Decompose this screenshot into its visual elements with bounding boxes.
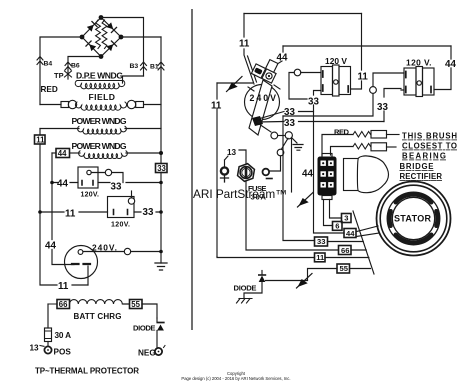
svg-text:120V.: 120V.: [81, 192, 100, 199]
svg-text:DIODE: DIODE: [133, 324, 156, 333]
svg-text:55: 55: [131, 300, 140, 309]
svg-text:44: 44: [277, 53, 288, 64]
svg-text:44: 44: [45, 241, 56, 252]
svg-text:BATT CHRG: BATT CHRG: [74, 312, 122, 321]
svg-text:33: 33: [284, 107, 295, 118]
svg-text:POWER WNDG: POWER WNDG: [72, 141, 127, 151]
svg-text:B6: B6: [71, 63, 80, 70]
svg-text:30 A: 30 A: [55, 331, 72, 340]
svg-text:120 V: 120 V: [325, 56, 347, 66]
svg-text:33: 33: [308, 97, 319, 108]
svg-text:Page design (c) 2004 - 2016 by: Page design (c) 2004 - 2016 by ARI Netwo…: [181, 376, 290, 381]
svg-text:44: 44: [346, 229, 355, 238]
svg-text:33: 33: [111, 182, 122, 193]
svg-text:STATOR: STATOR: [394, 214, 432, 224]
svg-text:33: 33: [317, 237, 325, 246]
svg-text:NEG: NEG: [138, 349, 156, 358]
svg-text:11: 11: [358, 72, 369, 83]
svg-text:BEARING: BEARING: [402, 152, 446, 161]
svg-text:13: 13: [30, 344, 40, 353]
svg-text:D.P.E WNDG: D.P.E WNDG: [76, 71, 123, 81]
svg-text:66: 66: [59, 300, 68, 309]
svg-text:44: 44: [445, 59, 456, 70]
svg-text:11: 11: [316, 253, 325, 262]
svg-text:THIS BRUSH: THIS BRUSH: [402, 132, 457, 141]
svg-text:B4: B4: [44, 61, 53, 68]
svg-text:11: 11: [58, 281, 69, 292]
svg-text:120V.: 120V.: [111, 222, 130, 229]
svg-text:66: 66: [341, 246, 349, 255]
svg-text:240V: 240V: [250, 93, 277, 103]
svg-text:11: 11: [239, 39, 250, 50]
svg-text:13: 13: [227, 148, 237, 157]
svg-text:33: 33: [143, 207, 154, 218]
svg-text:11: 11: [65, 209, 76, 220]
svg-text:B3: B3: [130, 63, 139, 70]
svg-text:44: 44: [58, 149, 67, 158]
svg-text:55: 55: [340, 264, 349, 273]
svg-text:TP~THERMAL PROTECTOR: TP~THERMAL PROTECTOR: [35, 367, 139, 376]
svg-text:ARI PartStream™: ARI PartStream™: [193, 187, 287, 201]
svg-text:TP: TP: [54, 71, 64, 80]
svg-text:11: 11: [211, 101, 222, 112]
svg-text:11: 11: [36, 136, 45, 145]
svg-text:RECTIFIER: RECTIFIER: [400, 172, 443, 181]
svg-text:POWER WNDG: POWER WNDG: [72, 116, 127, 126]
svg-text:RED: RED: [41, 85, 58, 94]
svg-text:FIELD: FIELD: [89, 92, 117, 102]
svg-text:POS: POS: [54, 348, 72, 357]
svg-text:CLOSEST TO: CLOSEST TO: [402, 142, 457, 151]
svg-text:44: 44: [57, 179, 68, 190]
svg-text:RED: RED: [334, 128, 350, 137]
svg-text:33: 33: [157, 164, 166, 173]
svg-text:33: 33: [284, 118, 295, 129]
svg-text:BRIDGE: BRIDGE: [400, 162, 434, 171]
svg-text:44: 44: [302, 169, 313, 180]
svg-text:33: 33: [377, 102, 388, 113]
svg-text:6: 6: [335, 222, 339, 231]
svg-text:DIODE: DIODE: [234, 284, 257, 293]
svg-text:B1: B1: [150, 64, 159, 71]
svg-text:120 V.: 120 V.: [406, 58, 432, 68]
svg-text:240V.: 240V.: [92, 243, 117, 253]
svg-text:3: 3: [344, 214, 348, 223]
